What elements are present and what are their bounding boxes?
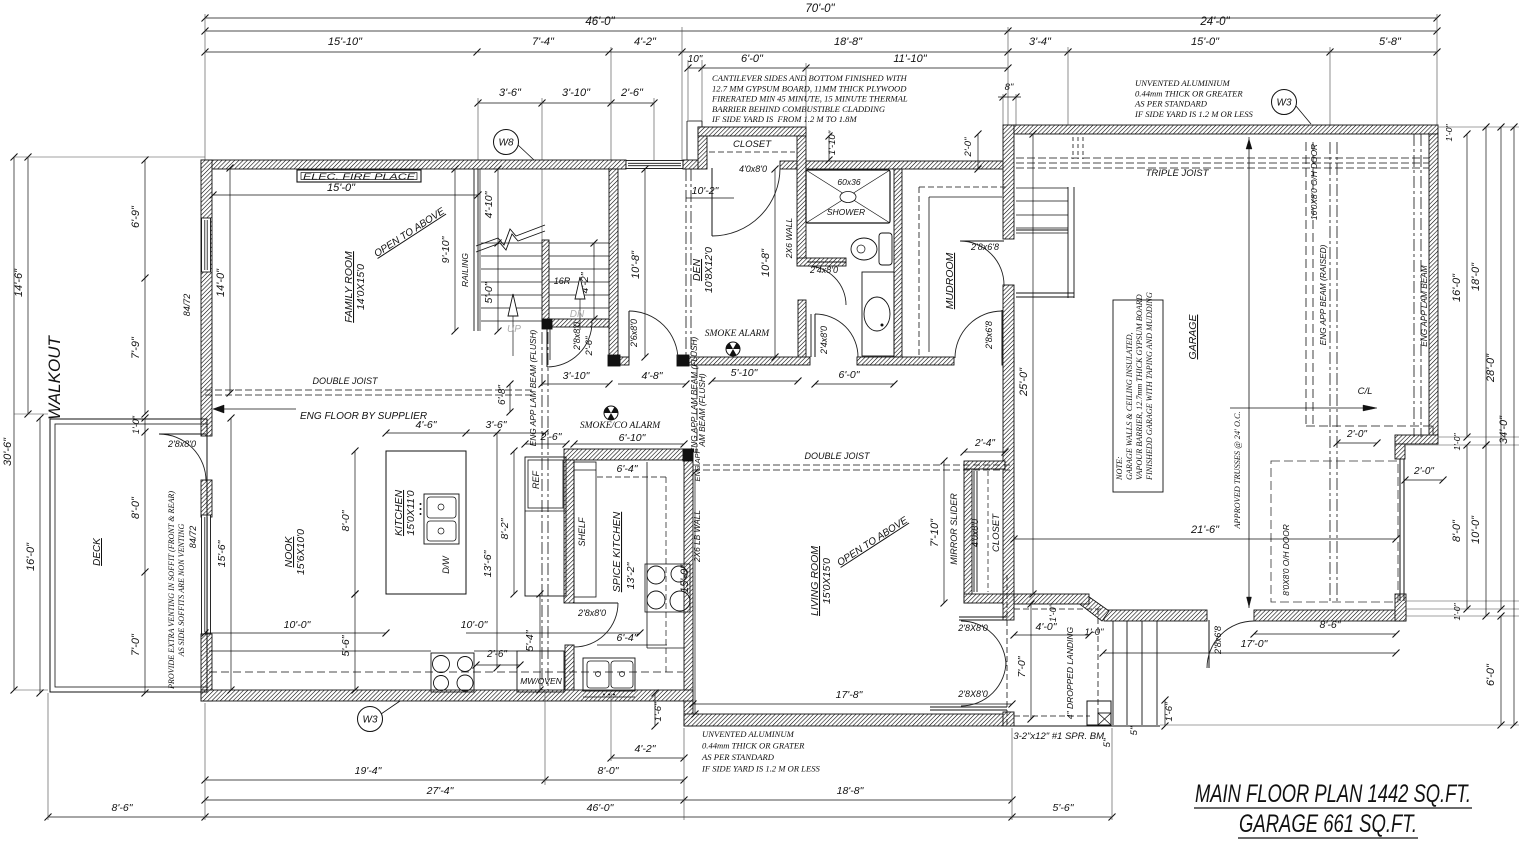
wall: living east upper xyxy=(1003,594,1014,620)
dim 10'-8 den left xyxy=(644,169,646,357)
svg-text:4" DROPPED LANDING: 4" DROPPED LANDING xyxy=(1065,626,1075,719)
wall: landing north xyxy=(1014,594,1089,604)
svg-text:DEN: DEN xyxy=(691,258,703,281)
door 2'8x8'0 deck->nook xyxy=(159,434,206,481)
dim 34'-0 right xyxy=(1513,127,1515,725)
wall: closet north xyxy=(698,127,806,136)
spice door 2'8x8'0 xyxy=(574,602,618,604)
dim row4 10" / 6'-0" / 11'-10" xyxy=(688,67,1008,69)
dashes at stair top xyxy=(1072,137,1074,159)
shower xyxy=(806,170,890,223)
wall: garage SE corner xyxy=(1395,594,1406,621)
svg-text:34'-0": 34'-0" xyxy=(1498,415,1510,444)
cooktop xyxy=(431,653,474,692)
svg-text:IF SIDE YARD IS 1.2 M OR LESS: IF SIDE YARD IS 1.2 M OR LESS xyxy=(1134,109,1253,119)
svg-text:5'-6": 5'-6" xyxy=(1053,802,1075,814)
svg-text:MW/OVEN: MW/OVEN xyxy=(520,676,562,686)
svg-text:2'-6": 2'-6" xyxy=(540,431,563,443)
svg-text:DOUBLE JOIST: DOUBLE JOIST xyxy=(312,376,379,386)
svg-text:APPROVED TRUSSES @ 24' O.C.: APPROVED TRUSSES @ 24' O.C. xyxy=(1233,411,1242,529)
spice sink xyxy=(583,658,635,691)
window tag W8 xyxy=(494,130,519,155)
dim 18'-0 right xyxy=(1485,127,1487,445)
svg-text:14'-6": 14'-6" xyxy=(13,268,25,297)
svg-text:25'-0": 25'-0" xyxy=(1018,367,1030,397)
svg-text:3'-6": 3'-6" xyxy=(486,419,508,431)
kitchen counter line xyxy=(209,650,431,652)
svg-text:D/W: D/W xyxy=(441,555,451,574)
stair treads left flight xyxy=(481,242,542,244)
post at landing xyxy=(1087,701,1111,725)
svg-text:10'-8": 10'-8" xyxy=(760,248,772,277)
svg-text:SHOWER: SHOWER xyxy=(827,207,865,217)
svg-text:IF SIDE YARD IS FROM 1.2 M TO: IF SIDE YARD IS FROM 1.2 M TO 1.8M xyxy=(711,114,857,124)
svg-text:6'-0": 6'-0" xyxy=(839,369,861,381)
svg-text:4'-2": 4'-2" xyxy=(635,743,657,755)
stair treads right flight xyxy=(549,242,609,244)
svg-text:8'-0": 8'-0" xyxy=(598,765,620,777)
spice counter line xyxy=(646,462,648,648)
svg-text:2'8x8'0: 2'8x8'0 xyxy=(572,322,582,351)
door 2'8x6'8 mud upper xyxy=(961,240,1004,242)
svg-text:2'-4": 2'-4" xyxy=(974,438,995,449)
svg-text:RAILING: RAILING xyxy=(460,253,470,287)
svg-text:18'-0": 18'-0" xyxy=(1470,262,1482,291)
svg-text:1'-0": 1'-0" xyxy=(1048,603,1058,622)
dim 6'-0 right xyxy=(1500,616,1502,725)
svg-text:11'-10": 11'-10" xyxy=(893,53,927,65)
svg-text:15'6X10'0: 15'6X10'0 xyxy=(295,529,307,575)
svg-text:SMOKE ALARM: SMOKE ALARM xyxy=(705,329,771,339)
dim 16'-0 right xyxy=(1466,134,1468,437)
svg-text:8'-0": 8'-0" xyxy=(130,496,142,519)
dim 7'-10 closet2 xyxy=(943,461,945,603)
dim 8'-6 garage door xyxy=(1254,633,1396,635)
svg-text:2'8x8'0: 2'8x8'0 xyxy=(577,608,606,618)
UP arrow xyxy=(512,316,514,356)
stair break zigzag xyxy=(476,231,545,252)
svg-text:13'-6": 13'-6" xyxy=(482,549,494,577)
svg-text:16R: 16R xyxy=(554,276,571,286)
svg-text:ENG APP BEAM (RAISED): ENG APP BEAM (RAISED) xyxy=(1318,244,1328,345)
svg-text:WALKOUT: WALKOUT xyxy=(45,335,64,420)
svg-text:10'-8": 10'-8" xyxy=(630,250,642,279)
wall: south living xyxy=(684,714,1012,726)
svg-text:1'-0": 1'-0" xyxy=(1452,603,1462,621)
svg-text:16'0X8'0 O/H DOOR: 16'0X8'0 O/H DOOR xyxy=(1309,144,1319,220)
svg-text:2'-6": 2'-6" xyxy=(486,649,507,660)
svg-text:0.44mm THICK OR GREATER: 0.44mm THICK OR GREATER xyxy=(1135,88,1243,98)
svg-text:10'-0": 10'-0" xyxy=(284,619,312,631)
dim 10'-2 line xyxy=(686,197,734,199)
svg-text:SHELF: SHELF xyxy=(577,517,587,547)
wall: diagonal step at landing xyxy=(1077,594,1109,621)
dim 15'-0 family top xyxy=(213,194,478,196)
wall: spice north xyxy=(564,449,684,460)
svg-text:AS PER STANDARD: AS PER STANDARD xyxy=(1134,99,1208,109)
svg-text:C/L: C/L xyxy=(1358,386,1373,397)
svg-text:46'-0": 46'-0" xyxy=(585,16,615,28)
wall: bath west upper xyxy=(797,136,806,262)
door 2'6x8'0 den south xyxy=(629,311,678,360)
svg-text:2'-6": 2'-6" xyxy=(584,336,595,357)
overhead door panel 8'0x8'0 east xyxy=(1399,459,1401,601)
svg-text:5'-6": 5'-6" xyxy=(340,634,352,656)
dim 4'-2 bottom xyxy=(611,757,684,759)
svg-text:8'-0": 8'-0" xyxy=(1451,519,1463,542)
svg-text:7'-10": 7'-10" xyxy=(929,518,941,547)
svg-text:1'-0": 1'-0" xyxy=(131,415,141,434)
svg-text:6'-4": 6'-4" xyxy=(617,463,639,475)
svg-text:ENG APP LAM BEAM (FLUSH): ENG APP LAM BEAM (FLUSH) xyxy=(528,330,538,447)
svg-text:19'-4": 19'-4" xyxy=(355,765,383,777)
wall: closet2 north xyxy=(964,461,1005,469)
wall: garage west lower xyxy=(1003,285,1014,604)
dashed door outline right xyxy=(1306,425,1433,427)
svg-text:14'-0": 14'-0" xyxy=(215,268,227,297)
svg-text:2'8x6'8: 2'8x6'8 xyxy=(984,321,994,350)
svg-text:17'-0": 17'-0" xyxy=(1241,638,1269,650)
wall: stair stringer xyxy=(542,240,549,322)
svg-text:1'-6": 1'-6" xyxy=(1164,702,1175,722)
eng app lam beam right xyxy=(1413,134,1415,437)
svg-text:2'8X8'0: 2'8X8'0 xyxy=(957,623,987,633)
svg-text:4'-2": 4'-2" xyxy=(634,36,657,48)
svg-text:5'-0": 5'-0" xyxy=(483,281,495,303)
dim 30'-6" left outer xyxy=(13,157,15,690)
post at stair bottom xyxy=(542,319,552,329)
svg-text:W3: W3 xyxy=(1277,98,1292,109)
dim 17'-0 garage xyxy=(1103,652,1396,654)
dim 4'-0 landing xyxy=(1014,634,1089,636)
svg-text:6'-0": 6'-0" xyxy=(741,53,764,65)
svg-text:2'4x8'0: 2'4x8'0 xyxy=(819,326,829,355)
svg-text:15'-0": 15'-0" xyxy=(327,182,356,194)
wall: bath east xyxy=(894,169,902,362)
svg-text:27'-4": 27'-4" xyxy=(426,785,455,797)
svg-text:2'8x6'8: 2'8x6'8 xyxy=(1213,626,1223,655)
svg-text:2'-0": 2'-0" xyxy=(963,137,974,158)
svg-text:ENG APP LAM BEAM: ENG APP LAM BEAM xyxy=(1419,265,1429,347)
dim 70'-0" overall top xyxy=(205,17,1437,19)
svg-text:8'-2": 8'-2" xyxy=(499,517,511,539)
dim 2'-4 closet2 top xyxy=(964,451,1005,453)
svg-text:NOTE:: NOTE: xyxy=(1115,456,1124,481)
svg-text:DN: DN xyxy=(570,309,585,320)
svg-text:ENG APP: ENG APP xyxy=(693,448,702,481)
svg-text:GARAGE 661 SQ.FT.: GARAGE 661 SQ.FT. xyxy=(1239,810,1417,838)
wall: house west lower xyxy=(201,634,212,701)
extension lines top xyxy=(204,14,206,160)
svg-text:6'-8": 6'-8" xyxy=(497,385,508,405)
wall: north bath+mudroom xyxy=(806,161,1003,169)
door 4'0x8'0 closet top xyxy=(712,168,780,236)
svg-text:REF: REF xyxy=(531,470,541,489)
svg-text:6'-10": 6'-10" xyxy=(619,432,647,444)
svg-text:CANTILEVER SIDES AND BOTTOM FI: CANTILEVER SIDES AND BOTTOM FINISHED WIT… xyxy=(712,73,908,83)
wall: garage bump north xyxy=(1395,435,1438,444)
svg-text:FIRERATED MIN 45 MINUTE, 15 MI: FIRERATED MIN 45 MINUTE, 15 MINUTE THERM… xyxy=(711,94,908,104)
trusses direction line xyxy=(1248,137,1250,608)
svg-text:2'8x6'8: 2'8x6'8 xyxy=(970,242,999,252)
svg-text:15'0X11'0: 15'0X11'0 xyxy=(405,490,417,535)
svg-text:9'-10": 9'-10" xyxy=(440,235,452,263)
bottom extension lines xyxy=(47,693,49,820)
svg-text:1'-0": 1'-0" xyxy=(1444,124,1454,142)
svg-text:DOUBLE JOIST: DOUBLE JOIST xyxy=(804,451,871,461)
wall: closet west xyxy=(698,127,707,169)
post at den door east xyxy=(677,355,689,366)
svg-text:ENG FLOOR BY SUPPLIER: ENG FLOOR BY SUPPLIER xyxy=(300,411,427,422)
svg-text:SPICE KITCHEN: SPICE KITCHEN xyxy=(611,511,623,592)
cantilever notch outline xyxy=(686,121,688,160)
svg-text:FINISHEDD GARAGE WITH TAPING A: FINISHEDD GARAGE WITH TAPING AND MUDDING xyxy=(1145,292,1154,481)
svg-text:14'0X15'0: 14'0X15'0 xyxy=(355,264,367,310)
svg-text:17'-8": 17'-8" xyxy=(836,689,864,701)
svg-text:2'-0": 2'-0" xyxy=(1346,429,1367,440)
svg-text:2'8X8'0: 2'8X8'0 xyxy=(957,689,987,699)
closet2 rod dashed xyxy=(987,471,989,592)
svg-text:60x36: 60x36 xyxy=(837,177,860,187)
svg-text:7'-0": 7'-0" xyxy=(1016,655,1028,677)
kitchen dims xyxy=(386,432,466,434)
landing dashed xyxy=(1014,608,1104,610)
svg-text:MAIN FLOOR PLAN 1442 SQ.FT.: MAIN FLOOR PLAN 1442 SQ.FT. xyxy=(1195,780,1471,808)
svg-text:18'-8": 18'-8" xyxy=(837,785,865,797)
wall: north segment at closet xyxy=(683,160,700,169)
svg-text:UNVENTED ALUMINIUM: UNVENTED ALUMINIUM xyxy=(1135,78,1230,88)
svg-text:10'8X12'0: 10'8X12'0 xyxy=(703,247,715,293)
svg-text:IF SIDE YARD IS 1.2 M OR LESS: IF SIDE YARD IS 1.2 M OR LESS xyxy=(701,764,820,774)
shelf xyxy=(574,462,596,597)
wall: garage south left of door xyxy=(1104,610,1207,621)
entry stairs xyxy=(1112,621,1114,725)
svg-text:6'-9": 6'-9" xyxy=(130,205,142,228)
svg-text:5'-4": 5'-4" xyxy=(524,629,536,651)
post den west end xyxy=(608,355,620,366)
dim 16'-0" deck height xyxy=(39,418,41,693)
svg-text:13'-2": 13'-2" xyxy=(625,561,637,589)
svg-text:GARAGE: GARAGE xyxy=(1187,314,1199,360)
wall: stair bottom xyxy=(549,319,609,327)
window W8 in north wall xyxy=(626,161,683,169)
svg-text:18'-8": 18'-8" xyxy=(834,36,863,48)
garage stairwell xyxy=(1067,187,1069,298)
dashed rect 8x8 door xyxy=(1271,461,1398,602)
svg-text:8'-0": 8'-0" xyxy=(340,509,352,531)
svg-text:7'-4": 7'-4" xyxy=(532,36,555,48)
svg-text:8'-6": 8'-6" xyxy=(1320,619,1342,631)
fridge/counter east xyxy=(525,457,566,596)
door 2'4x8'0 bath lower xyxy=(815,314,858,357)
wall: garage east xyxy=(1429,134,1438,437)
dim row3 15'-10 / 7'-4 / 4'-2 / 18'-8 / 3'-4 / 15'-0 / 5'-8 xyxy=(205,51,1437,53)
dim 27'-4 bottom xyxy=(205,799,684,801)
svg-text:BARRIER BEHIND COMBUSTIBLE CLA: BARRIER BEHIND COMBUSTIBLE CLADDING xyxy=(712,104,886,114)
dim 8'-6 bottom xyxy=(48,816,205,818)
dim 14'-6" left xyxy=(27,157,29,414)
svg-text:3'-6": 3'-6" xyxy=(499,87,522,99)
svg-text:LIVING ROOM: LIVING ROOM xyxy=(809,546,821,616)
wall: closet2 west xyxy=(964,469,972,603)
svg-text:0.44mm THICK OR GRATER: 0.44mm THICK OR GRATER xyxy=(702,741,805,751)
triple joist dashed xyxy=(1016,157,1429,159)
door 2'4x8'0 bath upper xyxy=(807,266,846,305)
svg-text:SMOKE/CO ALARM: SMOKE/CO ALARM xyxy=(580,421,661,431)
svg-text:28'-0": 28'-0" xyxy=(1485,353,1497,383)
railing double line xyxy=(473,169,475,331)
mw/oven cabinet xyxy=(517,651,564,692)
svg-text:16'-0": 16'-0" xyxy=(25,542,37,571)
svg-text:2'-0": 2'-0" xyxy=(1413,466,1434,477)
svg-text:TRIPLE JOIST: TRIPLE JOIST xyxy=(1146,168,1210,179)
svg-text:12.7 MM GYPSUM BOARD, 11MM THI: 12.7 MM GYPSUM BOARD, 11MM THICK PLYWOOD xyxy=(712,83,907,93)
svg-text:84/72: 84/72 xyxy=(188,526,198,549)
dim 4'-10 / 5'-0 stairs xyxy=(497,169,499,331)
svg-text:70'-0": 70'-0" xyxy=(805,3,835,15)
window 84/72 upper in west wall xyxy=(202,218,211,272)
mirror slider door xyxy=(973,471,975,592)
beam dash-dot den xyxy=(685,169,687,357)
wall: garage north xyxy=(1014,125,1438,134)
wall: house west upper xyxy=(201,160,212,436)
dim 1'-0 / 8'-0 / 7'-0 deck left xyxy=(144,418,146,693)
svg-text:AS PER STANDARD: AS PER STANDARD xyxy=(701,752,775,762)
wall: bath west lower xyxy=(798,300,806,362)
vanity xyxy=(862,272,894,356)
elec fireplace xyxy=(297,170,421,182)
svg-text:CLOSET: CLOSET xyxy=(991,513,1002,552)
svg-text:PROVIDE EXTRA VENTING IN SOFFI: PROVIDE EXTRA VENTING IN SOFFIT (FRONT &… xyxy=(167,491,176,690)
svg-text:84/72: 84/72 xyxy=(182,294,192,317)
svg-text:3'-10": 3'-10" xyxy=(563,370,591,382)
svg-text:6'-0": 6'-0" xyxy=(1485,663,1497,686)
dim 46'-0" top row2 xyxy=(205,30,1008,32)
island xyxy=(386,451,466,594)
svg-text:30'-6": 30'-6" xyxy=(2,437,14,466)
svg-text:16'-0": 16'-0" xyxy=(1451,273,1463,302)
spice dims xyxy=(597,476,667,478)
door 2'8x8'0 at stair hall xyxy=(547,322,592,367)
svg-text:4'0x8'0: 4'0x8'0 xyxy=(739,164,767,174)
spice stove xyxy=(647,566,665,584)
svg-text:5'-10": 5'-10" xyxy=(731,367,759,379)
svg-text:4'-10": 4'-10" xyxy=(483,190,495,218)
dim 10'-0 right xyxy=(1485,445,1487,616)
svg-text:W3: W3 xyxy=(363,715,378,726)
wall: south kitchen/nook xyxy=(201,690,693,701)
window 84/72 house west xyxy=(202,515,211,634)
svg-text:8": 8" xyxy=(1005,82,1014,93)
dim 14'-0 family xyxy=(229,168,231,393)
right extension lines xyxy=(1438,126,1519,128)
svg-text:6'-4": 6'-4" xyxy=(617,632,639,644)
island sink xyxy=(424,494,459,544)
door 2'8x6'8 mud lower xyxy=(1001,310,1003,358)
window tag W3 top xyxy=(1272,90,1297,115)
svg-text:2X6 WALL: 2X6 WALL xyxy=(784,217,794,259)
toilet xyxy=(851,238,877,260)
svg-text:10'-0": 10'-0" xyxy=(1470,515,1482,544)
dim 5'-6 bottom xyxy=(1012,816,1112,818)
svg-text:NOOK: NOOK xyxy=(283,536,295,568)
double joist dashed living xyxy=(693,464,1010,466)
svg-text:DECK: DECK xyxy=(92,537,103,566)
wall: living east lower xyxy=(1003,712,1014,726)
wall: garage west upper xyxy=(1003,125,1014,239)
closet rod dashed xyxy=(709,151,795,153)
W3 circle bottom xyxy=(358,707,383,732)
side entry door xyxy=(1208,620,1210,668)
svg-text:8'0X8'0 O/H DOOR: 8'0X8'0 O/H DOOR xyxy=(1281,524,1291,595)
mudroom bench inner xyxy=(929,196,1002,198)
svg-text:3-2"x12" #1 SPR. BM.: 3-2"x12" #1 SPR. BM. xyxy=(1013,731,1106,742)
svg-text:2X6 LB WALL: 2X6 LB WALL xyxy=(692,510,702,563)
svg-text:5": 5" xyxy=(1102,738,1113,747)
svg-text:7'-9": 7'-9" xyxy=(130,336,142,359)
O/H door track dashed xyxy=(1305,142,1307,426)
svg-text:15'-6": 15'-6" xyxy=(216,539,228,567)
svg-text:2'-6": 2'-6" xyxy=(620,87,644,99)
svg-text:GARAGE WALLS & CEILING INSULAT: GARAGE WALLS & CEILING INSULATED, xyxy=(1125,332,1134,480)
svg-text:AS SIDE SOFFITS ARE NON VENTIN: AS SIDE SOFFITS ARE NON VENTING xyxy=(177,523,186,657)
svg-text:KITCHEN: KITCHEN xyxy=(393,490,405,537)
svg-text:10": 10" xyxy=(688,54,703,65)
dim 17'-8 living xyxy=(693,703,1012,705)
wall: living west xyxy=(684,449,693,726)
svg-text:VAPOUR BARRIER, 12.7mm THICK G: VAPOUR BARRIER, 12.7mm THICK GYPSUM BOAR… xyxy=(1135,294,1144,480)
svg-text:UP: UP xyxy=(507,324,521,335)
dim 6'-9 / 7'-9 family left xyxy=(144,160,146,414)
svg-text:4'-6": 4'-6" xyxy=(416,419,438,431)
svg-text:7'-0": 7'-0" xyxy=(130,633,142,656)
svg-text:15'-0": 15'-0" xyxy=(1191,36,1220,48)
svg-text:15'0X15'0: 15'0X15'0 xyxy=(821,558,833,604)
svg-text:CLOSET: CLOSET xyxy=(733,139,772,150)
dim 10'-8 den right xyxy=(774,169,776,357)
dim 28'-0 right xyxy=(1500,127,1502,609)
svg-text:21'-6": 21'-6" xyxy=(1190,524,1220,536)
dim 8'-0 right xyxy=(1466,445,1468,609)
svg-text:FAMILY ROOM: FAMILY ROOM xyxy=(343,251,355,323)
svg-text:3'-10": 3'-10" xyxy=(562,87,591,99)
wall: bath stub xyxy=(797,258,846,266)
svg-text:1'-0": 1'-0" xyxy=(1452,433,1462,451)
svg-text:4'0x8'0: 4'0x8'0 xyxy=(970,519,980,547)
svg-text:10'-0": 10'-0" xyxy=(461,619,489,631)
svg-text:2'4x8'0: 2'4x8'0 xyxy=(809,265,838,275)
svg-text:10'-2": 10'-2" xyxy=(692,185,720,197)
svg-text:UNVENTED ALUMINUM: UNVENTED ALUMINUM xyxy=(702,729,795,739)
note garage box xyxy=(1113,300,1163,492)
dim 7'-0 landing xyxy=(1030,604,1032,719)
DN arrow xyxy=(579,299,581,330)
dim 25'-0 garage xyxy=(1032,134,1034,594)
svg-text:8'-6": 8'-6" xyxy=(112,802,134,814)
dim 46'-0 bottom xyxy=(205,816,1012,818)
svg-text:24'-0": 24'-0" xyxy=(1199,16,1230,28)
svg-text:5'-8": 5'-8" xyxy=(1379,36,1402,48)
dim 19'-4 bottom xyxy=(205,779,545,781)
wall: north family/den xyxy=(201,160,626,169)
beam raised dash-dot xyxy=(1329,142,1331,602)
beam dash-dot kitchen/living xyxy=(541,332,543,690)
wall: garage south right of door xyxy=(1254,610,1406,621)
wall: spice south stub xyxy=(565,645,574,693)
dim 24'-0" top row2 xyxy=(1008,30,1437,32)
deck outline double line xyxy=(50,419,207,692)
wall: north segment right of closet door xyxy=(780,161,797,169)
